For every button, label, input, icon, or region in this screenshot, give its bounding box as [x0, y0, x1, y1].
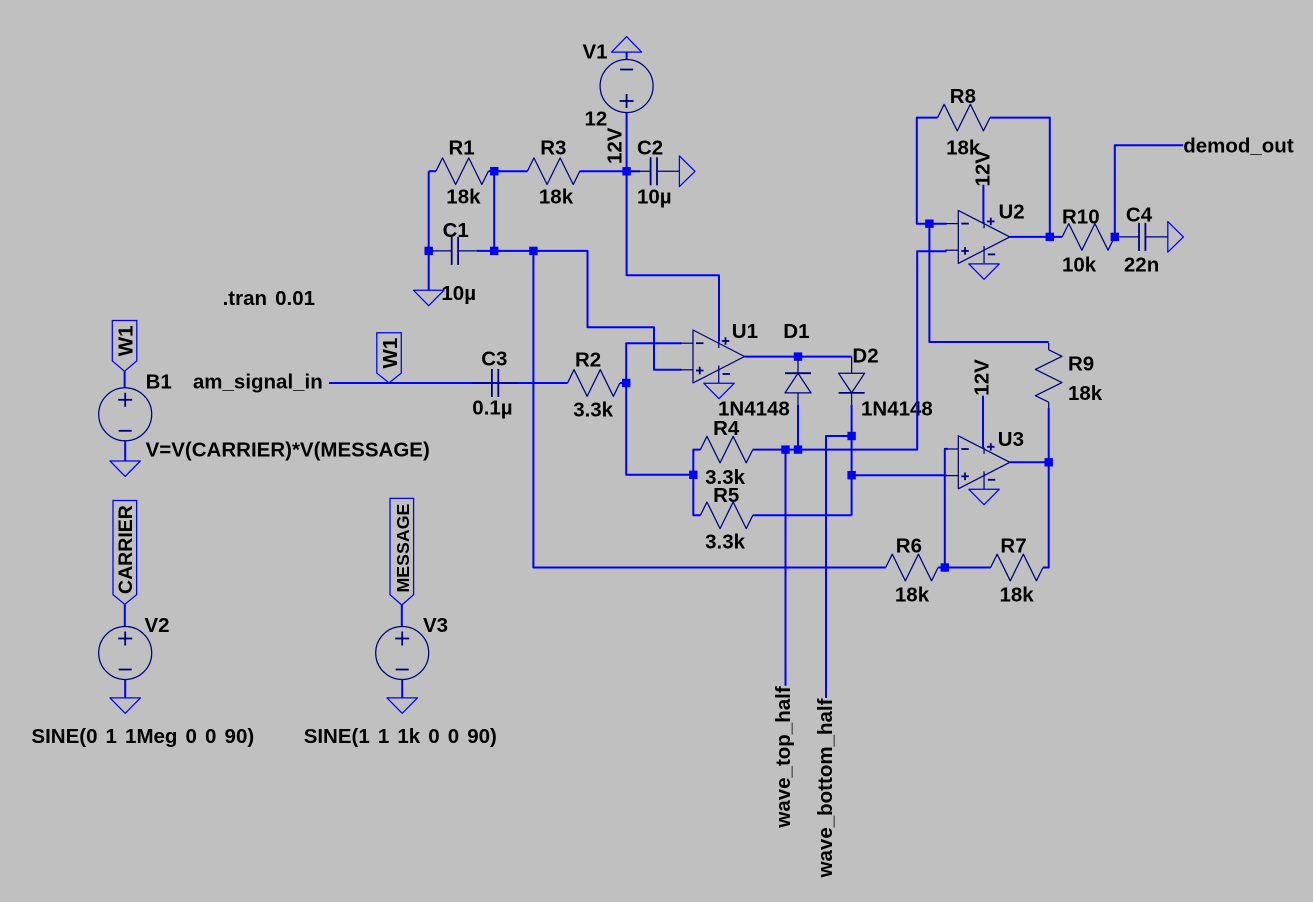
node junction D2 wave tap	[847, 432, 855, 440]
wire R8 left loop	[917, 118, 947, 224]
svg-text:MESSAGE: MESSAGE	[393, 503, 413, 592]
node junction wave_top tap	[781, 445, 789, 453]
node junction U3 plus feed	[847, 471, 855, 479]
wire vertical junction column x494	[493, 171, 495, 251]
label C4	[1126, 204, 1153, 227]
resistor R2	[568, 370, 620, 397]
net label demod_out	[1183, 134, 1294, 157]
label C2	[637, 137, 663, 160]
label R7 value	[1000, 583, 1035, 606]
label R3 value	[539, 186, 574, 209]
label R10	[1062, 205, 1100, 228]
capacitor C2	[631, 157, 680, 185]
ground U2	[969, 264, 999, 279]
svg-text:C3: C3	[481, 347, 507, 370]
svg-text:R6: R6	[896, 534, 922, 557]
svg-text:B1: B1	[146, 371, 172, 394]
svg-text:3.3k: 3.3k	[573, 399, 613, 422]
wire R4 right to U2 plus	[753, 251, 947, 449]
node junction x533	[529, 247, 537, 255]
label R6	[896, 534, 922, 557]
wire D1 to R4 node	[797, 405, 799, 450]
svg-text:wave_bottom_half: wave_bottom_half	[814, 698, 837, 878]
svg-text:R9: R9	[1068, 352, 1094, 375]
node junction U2 minus	[925, 220, 933, 228]
resistor R6	[886, 554, 938, 581]
svg-text:V=V(CARRIER)*V(MESSAGE): V=V(CARRIER)*V(MESSAGE)	[146, 438, 430, 461]
svg-text:W1: W1	[379, 338, 402, 369]
capacitor C1	[432, 237, 478, 265]
label R5 value	[705, 530, 745, 553]
wire B1 to ground	[124, 441, 126, 461]
svg-text:10k: 10k	[1062, 253, 1097, 276]
node junction U2 output	[1046, 233, 1054, 241]
wire W1 flag stub column B1	[124, 371, 126, 388]
wire R5 right	[753, 514, 852, 516]
wire U3 output down to R7	[1043, 462, 1049, 567]
node junction R10-C4	[1111, 233, 1119, 241]
svg-text:SINE(1 1 1k 0 0 90): SINE(1 1 1k 0 0 90)	[304, 725, 497, 748]
svg-text:1N4148: 1N4148	[861, 397, 933, 420]
label C2 value	[637, 186, 672, 209]
capacitor C4	[1119, 223, 1168, 251]
label B1	[146, 371, 172, 394]
label R4 value	[705, 466, 745, 489]
svg-text:C4: C4	[1126, 204, 1153, 227]
node junction D1 bottom	[794, 445, 802, 453]
wire R8 right loop	[990, 118, 1050, 237]
svg-text:18k: 18k	[895, 583, 930, 606]
node junction R6-R7	[941, 563, 949, 571]
svg-text:.tran 0.01: .tran 0.01	[223, 287, 315, 310]
label C4 value	[1124, 253, 1159, 276]
svg-text:D1: D1	[783, 320, 809, 343]
wire U2 minus to R9	[929, 224, 1048, 342]
svg-text:3.3k: 3.3k	[705, 530, 745, 553]
svg-text:R2: R2	[575, 348, 601, 371]
svg-text:18k: 18k	[539, 186, 574, 209]
svg-text:demod_out: demod_out	[1183, 134, 1294, 157]
svg-text:12: 12	[585, 108, 608, 131]
resistor R10	[1062, 224, 1114, 251]
op-amp U3	[945, 436, 1010, 489]
wire CARRIER to V2	[124, 604, 126, 626]
wire junction to U1 plus path	[533, 251, 681, 370]
wire U1 inverting input	[626, 343, 681, 383]
svg-text:R4: R4	[713, 417, 740, 440]
node junction R4-R5 left	[689, 471, 697, 479]
label V1 value 12	[585, 108, 608, 131]
wire U2 output	[1010, 236, 1062, 238]
label C1 value	[441, 282, 476, 305]
capacitor C3	[472, 369, 518, 397]
label V3 value	[304, 725, 497, 748]
svg-text:SINE(0 1 1Meg 0 0 90): SINE(0 1 1Meg 0 0 90)	[31, 725, 254, 748]
svg-text:22n: 22n	[1124, 253, 1159, 276]
label R8 value	[946, 137, 981, 160]
ground C1	[414, 290, 444, 305]
directive .tran	[223, 287, 315, 310]
label V2 value	[31, 725, 254, 748]
label V3	[423, 614, 448, 637]
node junction R1-R3	[490, 167, 498, 175]
svg-text:18k: 18k	[1068, 382, 1103, 405]
wire C1 right to mid junction	[477, 250, 533, 252]
label D1	[783, 320, 809, 343]
svg-text:R8: R8	[950, 85, 976, 108]
wire to U3 plus input	[852, 474, 947, 476]
svg-text:12V: 12V	[603, 127, 626, 164]
svg-text:D2: D2	[852, 345, 878, 368]
label B1 value	[146, 438, 430, 461]
net flag CARRIER	[113, 501, 137, 605]
voltage source V2	[99, 627, 152, 680]
output port flag at C2	[679, 156, 695, 187]
voltage source B1	[99, 388, 152, 441]
label R2 value	[573, 399, 613, 422]
wire 12V node down to U1 supply	[627, 171, 719, 341]
label U3	[998, 428, 1024, 451]
wire MESSAGE to V3	[401, 605, 403, 627]
wire U3 minus to R6-R7 node	[945, 449, 948, 568]
label C3	[481, 347, 507, 370]
wire x533 down to R6 row	[533, 251, 885, 568]
output port flag at C4	[1168, 222, 1184, 253]
label R3	[540, 136, 566, 159]
resistor R7	[991, 554, 1043, 581]
svg-text:R10: R10	[1062, 205, 1100, 228]
label R10 value	[1062, 253, 1097, 276]
wire am_signal_in horizontal	[329, 382, 568, 384]
node junction C1 right	[490, 247, 498, 255]
wire R2 to junction	[620, 382, 626, 384]
svg-text:12V: 12V	[972, 150, 995, 187]
label R5	[713, 484, 739, 507]
voltage source V3	[376, 627, 429, 680]
diode D2	[839, 357, 865, 405]
wire R4 R5 left column	[693, 450, 700, 516]
wire R6 to R7	[938, 567, 991, 569]
wire 12V node to C2	[627, 170, 640, 172]
label D2 value	[861, 397, 933, 420]
label R2	[575, 348, 601, 371]
resistor R1	[436, 158, 488, 185]
resistor R9	[1035, 343, 1062, 409]
resistor R8	[938, 104, 990, 131]
label C1	[443, 219, 469, 242]
voltage source V1	[600, 60, 653, 113]
label R9	[1068, 352, 1094, 375]
wire U1 output	[745, 356, 852, 358]
label V2	[145, 614, 170, 637]
svg-text:wave_top_half: wave_top_half	[772, 686, 795, 828]
svg-text:0.1µ: 0.1µ	[472, 396, 512, 419]
net flag W1 (on wire)	[377, 333, 402, 383]
svg-text:18k: 18k	[446, 186, 481, 209]
op-amp U1	[680, 330, 745, 383]
svg-text:18k: 18k	[1000, 583, 1035, 606]
label am_signal_in	[193, 371, 323, 394]
resistor R5	[700, 502, 752, 529]
node junction C1 left	[425, 247, 433, 255]
wire D2 down	[851, 405, 853, 516]
net flag MESSAGE	[390, 498, 414, 605]
wire C1 left junction	[429, 250, 432, 252]
svg-text:V2: V2	[145, 614, 170, 637]
svg-text:V3: V3	[423, 614, 448, 637]
label R8	[950, 85, 976, 108]
ground U1	[704, 383, 734, 398]
label U2	[999, 201, 1025, 224]
svg-text:U1: U1	[732, 320, 758, 343]
node junction R2 right	[622, 379, 630, 387]
svg-text:12V: 12V	[971, 359, 994, 396]
ground flag above V1 (rotated)	[612, 37, 642, 60]
wire R1 to junction	[488, 170, 494, 172]
label R7	[1000, 534, 1026, 557]
wire wave_top_half	[785, 450, 787, 686]
label R1 value	[446, 186, 481, 209]
wire wave_bottom_half tap	[826, 436, 852, 698]
label R1	[449, 136, 475, 159]
wire 12V stub U2	[982, 185, 984, 223]
node junction D1 top	[794, 352, 802, 360]
resistor R4	[700, 436, 752, 463]
wire R9 to U3 output	[1048, 408, 1050, 462]
wire U1 minus node down	[626, 383, 693, 475]
wire V3 to ground	[401, 680, 403, 698]
wire U3 output	[1010, 461, 1049, 463]
ground B1	[110, 461, 140, 476]
svg-text:R5: R5	[713, 484, 739, 507]
label V1	[583, 41, 608, 64]
svg-text:U2: U2	[999, 201, 1025, 224]
net label wave_top_half	[772, 686, 795, 828]
net label 12V at V1	[603, 127, 626, 164]
net flag W1 (at B1)	[112, 321, 137, 372]
svg-text:10µ: 10µ	[637, 186, 672, 209]
wire C1 to ground	[428, 251, 430, 290]
svg-text:10µ: 10µ	[441, 282, 476, 305]
label U1	[732, 320, 758, 343]
label R6 value	[895, 583, 930, 606]
wire demod_out	[1115, 145, 1183, 237]
svg-text:am_signal_in: am_signal_in	[193, 371, 323, 394]
svg-text:U3: U3	[998, 428, 1024, 451]
svg-text:CARRIER: CARRIER	[115, 505, 137, 594]
label R9 value	[1068, 382, 1103, 405]
label D2	[852, 345, 878, 368]
svg-text:W1: W1	[115, 325, 138, 356]
svg-text:C2: C2	[637, 137, 663, 160]
ground U3	[969, 489, 999, 504]
node junction 12V	[622, 167, 630, 175]
label R4	[713, 417, 740, 440]
svg-text:C1: C1	[443, 219, 469, 242]
label C3 value	[472, 396, 512, 419]
ground V3	[387, 698, 417, 713]
wire R1 left vertical	[429, 171, 436, 251]
resistor R3	[527, 158, 579, 185]
svg-text:R3: R3	[540, 136, 566, 159]
wire R3 to 12V node	[580, 170, 627, 172]
svg-text:R1: R1	[449, 136, 475, 159]
net label 12V at U3	[971, 359, 994, 396]
node junction U3 output	[1045, 458, 1053, 466]
op-amp U2	[945, 210, 1010, 263]
wire junction to R3	[494, 170, 527, 172]
ground V2	[110, 698, 140, 713]
wire V1 to 12V junction	[626, 113, 628, 172]
net label 12V at U2	[972, 150, 995, 187]
diode D1	[785, 357, 811, 405]
net label wave_bottom_half	[814, 698, 837, 878]
svg-text:V1: V1	[583, 41, 608, 64]
svg-text:R7: R7	[1000, 534, 1026, 557]
label D1 value	[718, 397, 790, 420]
wire V2 to ground	[124, 680, 126, 698]
wire 12V stub U3	[982, 396, 984, 448]
